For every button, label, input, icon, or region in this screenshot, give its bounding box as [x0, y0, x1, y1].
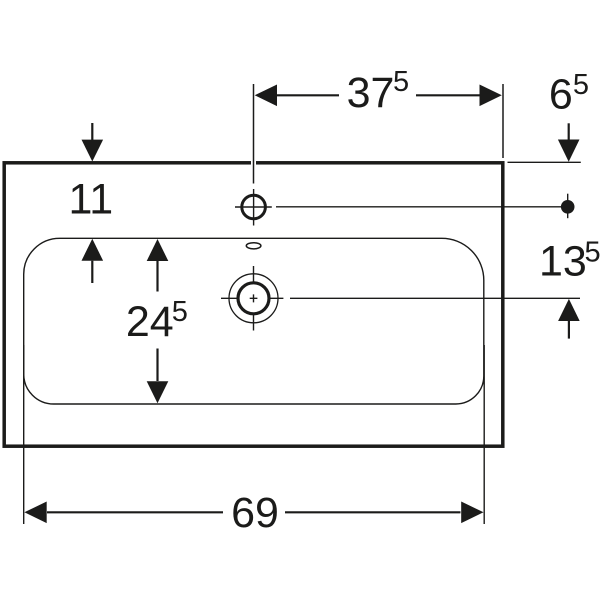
dim 11 arrow down: [91, 123, 93, 141]
svg-text:5: 5: [573, 69, 589, 101]
dim 37.5 extension line left: [253, 84, 255, 184]
svg-text:5: 5: [585, 237, 600, 269]
svg-text:13: 13: [539, 238, 587, 286]
svg-text:24: 24: [126, 298, 174, 346]
dim 24.5 arrow down: [156, 349, 158, 382]
dim 37.5 line: [277, 94, 480, 96]
svg-text:69: 69: [231, 489, 279, 537]
reference line drain to right: [290, 297, 580, 299]
svg-text:5: 5: [172, 296, 188, 328]
svg-text:37: 37: [347, 69, 395, 117]
dim 37.5 arrow right: [480, 85, 502, 107]
faucet hole centerline horizontal: [235, 206, 272, 208]
dim 37.5 extension line right: [502, 84, 504, 158]
basin outline: [24, 238, 484, 404]
dim 13.5 arrow up: [558, 299, 580, 321]
drain outer circle: [229, 274, 278, 323]
ceramic top edge extension right: [508, 161, 581, 163]
dim 69 arrow left: [24, 502, 46, 524]
dim 69 extension line right: [483, 345, 485, 524]
dot terminator: [561, 200, 575, 214]
dim 37.5 arrow left: [255, 85, 277, 107]
drain centerline horizontal: [221, 297, 283, 299]
drain inner ring: [238, 283, 269, 314]
ceramic outline: [4, 163, 503, 446]
svg-text:11: 11: [68, 176, 113, 224]
overflow slot: [246, 243, 261, 249]
dim 11 arrow up: [82, 239, 104, 261]
dim 69 line: [47, 511, 461, 513]
faucet hole: [242, 195, 266, 219]
drain centerline vertical: [253, 266, 255, 331]
dim 69 arrow right: [461, 502, 483, 524]
reference line faucet to dot: [276, 206, 562, 208]
dot terminator tick: [567, 194, 569, 219]
dim 69 extension line left: [23, 345, 25, 524]
faucet hole centerline vertical: [253, 189, 255, 226]
dim 24.5 arrow up: [147, 239, 169, 261]
gap in ceramic top edge: [251, 159, 256, 167]
svg-text:6: 6: [549, 70, 573, 118]
svg-text:5: 5: [393, 66, 409, 98]
dim 6.5 arrow down: [568, 123, 570, 140]
